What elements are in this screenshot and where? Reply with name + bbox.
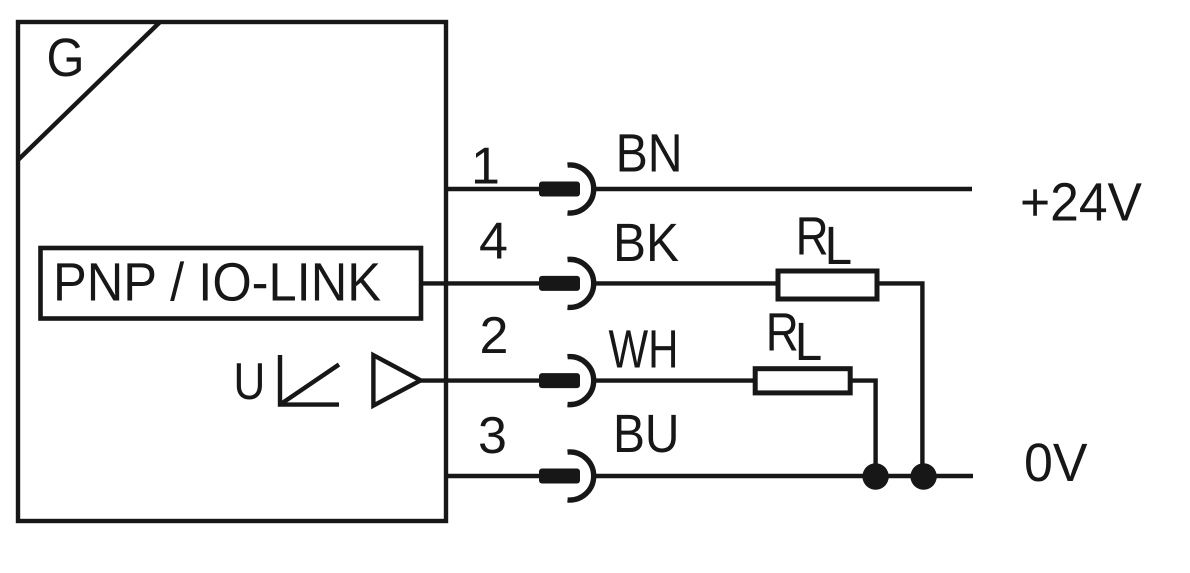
wire pin4 to 0V rail xyxy=(877,283,922,476)
connector plug pin2 xyxy=(539,373,580,388)
svg-text:+24V: +24V xyxy=(1020,173,1142,233)
corner diagonal (G marker) xyxy=(18,22,160,160)
wire BN xyxy=(596,187,972,191)
svg-text:3: 3 xyxy=(478,407,507,465)
wire BU / 0V rail xyxy=(596,474,973,478)
connector plug pin1 xyxy=(539,182,580,197)
svg-text:G: G xyxy=(47,28,85,88)
wire pin2 to 0V rail xyxy=(850,381,875,476)
connector socket arc pin4 xyxy=(568,259,594,307)
svg-text:PNP / IO-LINK: PNP / IO-LINK xyxy=(53,253,381,313)
connector socket arc pin1 xyxy=(568,165,594,213)
wire pin1 inner xyxy=(446,187,540,191)
output amplifier triangle xyxy=(373,355,420,405)
wire BK xyxy=(596,281,778,285)
wire pin2 inner xyxy=(420,378,540,382)
wire pin4 inner xyxy=(421,281,540,285)
connector plug pin3 xyxy=(539,469,580,484)
adjustable-angle symbol xyxy=(280,355,339,405)
resistor RL (load on pin2) xyxy=(755,369,850,393)
svg-text:WH: WH xyxy=(609,320,679,380)
junction dot pin2 rail xyxy=(862,463,888,489)
connector socket arc pin3 xyxy=(568,452,594,500)
connector plug pin4 xyxy=(539,276,580,291)
svg-text:L: L xyxy=(795,312,823,372)
svg-text:BN: BN xyxy=(616,124,683,184)
connector socket arc pin2 xyxy=(568,357,594,405)
svg-text:0V: 0V xyxy=(1024,433,1088,493)
svg-text:BU: BU xyxy=(613,404,680,464)
svg-text:BK: BK xyxy=(613,213,679,273)
svg-text:U: U xyxy=(233,353,265,411)
svg-text:R: R xyxy=(766,302,799,362)
junction dot pin4 rail xyxy=(910,463,936,489)
resistor RL (load on pin4) xyxy=(778,271,877,299)
wire WH xyxy=(596,378,755,382)
function block PNP / IO-LINK xyxy=(41,248,422,319)
svg-text:1: 1 xyxy=(471,138,500,196)
svg-text:2: 2 xyxy=(480,307,509,365)
wire pin3 inner xyxy=(446,474,540,478)
sensor body box xyxy=(18,22,446,521)
svg-text:L: L xyxy=(825,216,853,276)
svg-text:4: 4 xyxy=(479,213,508,271)
